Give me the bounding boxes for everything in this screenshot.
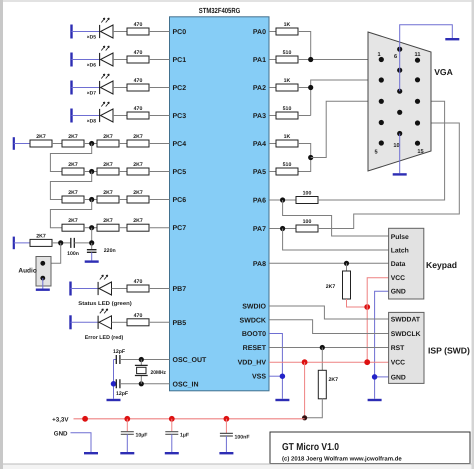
wire: [269, 59, 276, 61]
resistor 2K7 (PC7 c): [97, 218, 119, 231]
node stub audio net: [13, 237, 15, 250]
junction green video: [308, 85, 313, 90]
svg-text:2K7: 2K7: [36, 134, 46, 140]
svg-text:2K7: 2K7: [326, 284, 336, 290]
capacitor 1uF: [165, 419, 189, 452]
svg-text:PC6: PC6: [173, 197, 187, 204]
resistor 100 (PA6): [296, 191, 318, 204]
wire boot0: [269, 334, 282, 399]
ground (220n): [85, 260, 99, 262]
svg-text:VDD_HV: VDD_HV: [238, 360, 267, 367]
svg-text:2K7: 2K7: [68, 190, 78, 196]
junction rail end: [302, 415, 307, 420]
wire: [72, 31, 101, 33]
junction PA8 pullup: [344, 261, 349, 266]
wire: [298, 59, 381, 61]
svg-text:510: 510: [283, 50, 292, 56]
wire latch branch: [283, 229, 389, 251]
wire VGA pin10 to gnd: [399, 134, 401, 174]
node stub PC4 net: [13, 137, 15, 150]
connector ISP (SWD): [389, 312, 470, 383]
wire PA6: [269, 199, 296, 201]
node stub PB7 net: [69, 282, 71, 296]
resistor 100 (PA7): [296, 219, 318, 232]
title block: [270, 432, 470, 464]
svg-text:PC4: PC4: [173, 141, 187, 148]
svg-text:10µF: 10µF: [136, 433, 148, 439]
svg-text:SWDDAT: SWDDAT: [391, 316, 421, 323]
wire: [346, 263, 348, 271]
capacitor 10uF: [121, 419, 148, 452]
svg-text:GND: GND: [391, 374, 406, 381]
LED status (green): [78, 275, 132, 307]
wire ladder link PC6-PC7: [50, 200, 91, 228]
wire: [14, 242, 30, 244]
wire keypad vcc: [367, 278, 388, 362]
wire: [113, 59, 127, 61]
ground (10uF): [120, 452, 134, 454]
svg-text:VCC: VCC: [391, 360, 405, 367]
wire vdd: [269, 361, 389, 363]
svg-text:(c) 2018 Joerg Wolfram www.jcw: (c) 2018 Joerg Wolfram www.jcwolfram.de: [282, 456, 402, 463]
svg-text:Audio: Audio: [18, 267, 36, 274]
wire: [113, 115, 127, 117]
wire gnd stub: [71, 433, 92, 452]
svg-text:220n: 220n: [104, 248, 116, 254]
svg-text:×D7: ×D7: [87, 91, 97, 97]
wire: [149, 227, 170, 229]
wire VGA pins 6-8 gnd: [399, 49, 401, 91]
svg-text:Status LED (green): Status LED (green): [78, 301, 132, 307]
wire blue video to VGA pin3: [311, 101, 381, 157]
junction filter node: [89, 240, 94, 245]
junction vcc branch: [364, 304, 370, 310]
wire: [298, 144, 311, 172]
svg-text:PA1: PA1: [253, 57, 266, 64]
wire ladder link PC4-PC5: [50, 144, 91, 172]
resistor 2K7 (audio): [30, 233, 52, 246]
ground (gnd label): [84, 452, 98, 454]
wire: [269, 171, 276, 173]
resistor 2K7 (PC7 d): [127, 218, 149, 231]
svg-text:12pF: 12pF: [116, 391, 128, 397]
svg-text:OSC_IN: OSC_IN: [173, 381, 199, 388]
svg-text:×D5: ×D5: [87, 35, 97, 41]
wire: [71, 288, 100, 290]
wire pulse branch: [283, 200, 389, 236]
wire: [84, 199, 97, 201]
svg-text:470: 470: [134, 279, 143, 285]
svg-text:VGA: VGA: [434, 67, 453, 77]
resistor 2K7 (PC7 b): [62, 218, 84, 231]
wire: [72, 87, 101, 89]
svg-text:510: 510: [283, 106, 292, 112]
ground (VGA top): [445, 38, 459, 40]
svg-text:PC2: PC2: [173, 85, 187, 92]
node stub PB5 net: [69, 315, 71, 329]
crystal 20MHz: [135, 360, 166, 384]
svg-text:ISP (SWD): ISP (SWD): [428, 345, 470, 355]
svg-text:GND: GND: [391, 289, 406, 296]
resistor 1K (PA0): [276, 22, 298, 35]
LED D8: [87, 102, 113, 125]
svg-text:5: 5: [374, 150, 377, 156]
junction PA7: [280, 226, 285, 231]
wire vdd to rail: [304, 362, 306, 418]
wire: [84, 227, 97, 229]
ground (VGA bottom): [393, 173, 407, 175]
svg-text:1K: 1K: [284, 134, 291, 140]
wire: [149, 171, 170, 173]
junction audio node: [58, 240, 63, 245]
svg-text:PC0: PC0: [173, 29, 187, 36]
svg-text:PA5: PA5: [253, 169, 266, 176]
svg-text:Latch: Latch: [391, 248, 409, 255]
resistor 470 (PC1): [127, 50, 149, 63]
resistor 470 (PC2): [127, 78, 149, 91]
wire: [52, 242, 71, 244]
node stub PC1 net: [70, 53, 72, 67]
svg-text:RST: RST: [391, 345, 405, 352]
capacitor 100n: [67, 238, 79, 257]
wire: [74, 242, 91, 244]
svg-text:OSC_OUT: OSC_OUT: [173, 357, 208, 364]
wire: [119, 227, 127, 229]
wire: [149, 288, 170, 290]
LED error (red): [85, 309, 124, 341]
wire: [298, 80, 381, 116]
net label GND: [54, 430, 68, 437]
resistor 470 (PC3): [127, 106, 149, 119]
junction blue video: [308, 155, 313, 160]
svg-text:PA7: PA7: [253, 226, 266, 233]
svg-text:PB5: PB5: [173, 320, 187, 327]
svg-text:1K: 1K: [284, 78, 291, 84]
svg-text:PA3: PA3: [253, 113, 266, 120]
wire ladder link PC5-PC6: [50, 172, 91, 200]
resistor 2K7 (PC6 c): [97, 190, 119, 203]
wire power rail: [74, 418, 305, 420]
capacitor 12pF (OSC_IN): [116, 379, 128, 397]
svg-text:20MHz: 20MHz: [151, 370, 167, 376]
wire: [149, 31, 170, 33]
wire: [149, 59, 170, 61]
junction vdd right: [364, 359, 370, 365]
svg-text:GT Micro V1.0: GT Micro V1.0: [282, 442, 339, 453]
wire: [72, 59, 101, 61]
ground (VSS/BOOT0): [275, 399, 289, 401]
wire: [149, 199, 170, 201]
svg-text:VCC: VCC: [391, 275, 405, 282]
svg-text:1: 1: [377, 52, 380, 58]
connector VGA: [368, 32, 453, 171]
svg-text:SWDCK: SWDCK: [240, 317, 266, 324]
svg-text:12pF: 12pF: [113, 349, 125, 355]
resistor 2K7 (PC5 d): [127, 162, 149, 175]
svg-text:RESET: RESET: [243, 345, 267, 352]
wire: [119, 199, 127, 201]
wire: [119, 143, 127, 145]
junction PA6: [280, 197, 285, 202]
wire: [298, 32, 311, 60]
wire: [269, 87, 276, 89]
svg-text:100nF: 100nF: [235, 435, 250, 441]
svg-text:2K7: 2K7: [103, 190, 113, 196]
wire: [269, 115, 276, 117]
junction OSC_OUT node: [139, 357, 144, 362]
resistor 2K7 (reset pullup): [318, 370, 338, 399]
mcu U1 STM32F405RG: [170, 6, 270, 391]
svg-text:×D8: ×D8: [87, 119, 97, 125]
wire: [120, 359, 170, 361]
svg-text:GND: GND: [54, 430, 68, 437]
wire PC7 node to audio row: [91, 228, 93, 243]
wire: [149, 321, 170, 323]
svg-text:Pulse: Pulse: [391, 234, 409, 241]
resistor 510 (PA3): [276, 106, 298, 119]
resistor 2K7 (PC6 d): [127, 190, 149, 203]
svg-text:PC5: PC5: [173, 169, 187, 176]
ground (ISP): [368, 399, 382, 401]
resistor 1K (PA4): [276, 134, 298, 147]
ground (crystal): [107, 399, 121, 401]
wire: [113, 87, 127, 89]
svg-text:PC7: PC7: [173, 225, 187, 232]
ground (100nF): [219, 452, 233, 454]
svg-text:×D6: ×D6: [87, 63, 97, 69]
wire audio node to connector: [43, 243, 61, 263]
node stub PC3 net: [70, 109, 72, 123]
junction OSC_IN node: [139, 381, 144, 386]
wire pullup to rail: [305, 399, 323, 418]
wire: [14, 143, 30, 145]
resistor 1K (PA2): [276, 78, 298, 91]
svg-text:100n: 100n: [67, 251, 79, 257]
wire: [120, 383, 170, 385]
svg-text:2K7: 2K7: [103, 162, 113, 168]
junction rail a: [82, 416, 88, 422]
svg-text:470: 470: [134, 78, 143, 84]
svg-text:PA8: PA8: [253, 261, 266, 268]
wire: [72, 115, 101, 117]
wire: [84, 143, 97, 145]
capacitor 100nF: [220, 419, 250, 452]
svg-text:2K7: 2K7: [133, 190, 143, 196]
svg-text:Error LED (red): Error LED (red): [85, 335, 124, 341]
wire: [149, 115, 170, 117]
LED D5: [87, 18, 113, 40]
resistor 470 (PB7): [127, 279, 149, 292]
junction PC5 node: [89, 169, 94, 174]
svg-text:510: 510: [283, 162, 292, 168]
capacitor 12pF (OSC_OUT): [113, 349, 125, 364]
svg-text:2K7: 2K7: [68, 218, 78, 224]
wire: [71, 321, 100, 323]
svg-text:1µF: 1µF: [180, 433, 189, 439]
junction vdd left: [302, 359, 308, 365]
wire PA8 data: [269, 262, 389, 264]
svg-text:2K7: 2K7: [329, 377, 339, 383]
resistor 2K7 (PC5 b): [62, 162, 84, 175]
wire: [112, 288, 128, 290]
svg-text:PB7: PB7: [173, 286, 187, 293]
wire: [119, 171, 127, 173]
junction rail b: [124, 416, 130, 422]
junction isp gnd: [372, 374, 378, 380]
ground (audio): [36, 289, 50, 291]
svg-text:2K7: 2K7: [133, 162, 143, 168]
svg-text:PC3: PC3: [173, 113, 187, 120]
svg-text:PA6: PA6: [253, 198, 266, 205]
ground (1uF): [165, 452, 179, 454]
node stub PC0 net: [70, 25, 72, 39]
resistor 2K7 (PC4 b): [62, 134, 84, 147]
wire vss: [269, 375, 282, 377]
wire reset: [269, 347, 389, 349]
svg-text:PA2: PA2: [253, 85, 266, 92]
svg-text:15: 15: [417, 149, 423, 155]
wire VGA pin6 to gnd: [400, 25, 453, 49]
wire: [321, 348, 323, 371]
junction PC4 node: [89, 141, 94, 146]
junction rail c: [169, 416, 175, 422]
connector Audio: [18, 257, 51, 287]
svg-text:2K7: 2K7: [133, 134, 143, 140]
resistor 510 (PA1): [276, 50, 298, 63]
resistor 2K7 (PC4 a): [30, 134, 52, 147]
wire: [269, 143, 276, 145]
wire pullup to vcc: [347, 299, 368, 307]
svg-text:SWDCLK: SWDCLK: [391, 331, 421, 338]
svg-text:PC1: PC1: [173, 57, 187, 64]
svg-text:BOOT0: BOOT0: [242, 331, 266, 338]
svg-text:470: 470: [134, 313, 143, 319]
wire swdio: [269, 306, 389, 319]
svg-text:+3,3V: +3,3V: [52, 416, 69, 423]
resistor 2K7 (PC4 d): [127, 134, 149, 147]
svg-text:10: 10: [393, 143, 399, 149]
wire: [298, 115, 311, 117]
wire vsync to VGA pin14: [318, 123, 459, 229]
svg-text:SWDIO: SWDIO: [242, 303, 266, 310]
svg-text:2K7: 2K7: [103, 134, 113, 140]
svg-text:2K7: 2K7: [133, 218, 143, 224]
junction PC7 node: [89, 225, 94, 230]
resistor 2K7 (PA8 pullup): [326, 271, 351, 299]
wire: [149, 87, 170, 89]
resistor 2K7 (PC6 b): [62, 190, 84, 203]
svg-text:PA4: PA4: [253, 141, 266, 148]
resistor 470 (PB5): [127, 313, 149, 326]
svg-text:2K7: 2K7: [68, 134, 78, 140]
svg-text:2K7: 2K7: [36, 233, 46, 239]
svg-text:VSS: VSS: [252, 374, 266, 381]
wire: [91, 252, 93, 260]
resistor 470 (PC0): [127, 22, 149, 35]
svg-text:STM32F405RG: STM32F405RG: [199, 6, 241, 15]
resistor 2K7 (PC4 c): [97, 134, 119, 147]
svg-text:100: 100: [303, 191, 312, 197]
wire: [84, 171, 97, 173]
LED D6: [87, 46, 113, 69]
wire: [149, 143, 170, 145]
junction vss gnd: [280, 373, 286, 379]
svg-text:2K7: 2K7: [68, 162, 78, 168]
wire isp gnd pin: [375, 376, 389, 378]
wire gnd for crystal caps: [114, 360, 117, 399]
svg-text:470: 470: [134, 22, 143, 28]
resistor 510 (PA5): [276, 162, 298, 175]
resistor 2K7 (PC5 c): [97, 162, 119, 175]
wire keypad gnd: [375, 291, 389, 398]
svg-text:PA0: PA0: [253, 29, 266, 36]
svg-text:1K: 1K: [284, 22, 291, 28]
wire: [112, 321, 128, 323]
wire swdck: [269, 320, 389, 334]
junction PC6 node: [89, 197, 94, 202]
svg-text:11: 11: [415, 52, 421, 58]
wire hsync to VGA pin13: [318, 101, 445, 200]
wire: [113, 31, 127, 33]
junction reset pullup: [320, 345, 325, 350]
svg-text:Keypad: Keypad: [426, 260, 457, 270]
wire: [269, 31, 276, 33]
svg-text:100: 100: [303, 219, 312, 225]
svg-text:6: 6: [394, 54, 397, 60]
junction crystal gnd: [111, 381, 117, 387]
svg-text:Data: Data: [391, 261, 406, 268]
wire PA7: [269, 228, 296, 230]
junction red video: [308, 57, 313, 62]
wire: [52, 143, 62, 145]
svg-text:470: 470: [134, 50, 143, 56]
svg-text:2K7: 2K7: [103, 218, 113, 224]
wire: [42, 278, 44, 288]
capacitor 220n: [87, 243, 116, 254]
junction rail d: [224, 416, 230, 422]
node stub PC2 net: [70, 81, 72, 95]
svg-text:470: 470: [134, 106, 143, 112]
net label +3,3V: [52, 416, 69, 423]
LED D7: [87, 74, 113, 97]
connector Keypad: [389, 228, 457, 299]
